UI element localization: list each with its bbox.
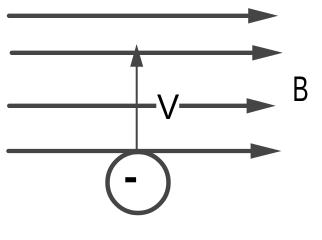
field line 1 (top B field arrow) [9,8,278,23]
field line 3 [9,98,276,113]
field line 2 [12,45,283,60]
svg-text:V: V [157,88,179,127]
velocity arrow (vertical, upward) [130,44,143,152]
field line 4 (bottom) [8,143,281,158]
negative charge (circle with minus) [108,152,169,213]
white halo behind label V [156,94,179,120]
svg-text:B: B [292,70,308,110]
